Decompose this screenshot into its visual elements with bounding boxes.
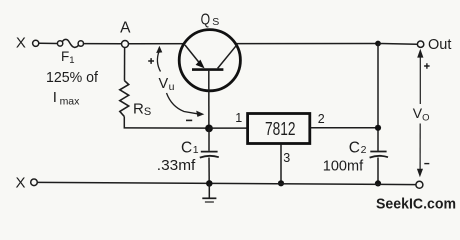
capacitor C2 bottom lead bbox=[377, 158, 379, 184]
wire: regulator pin 2 to C2 node bbox=[311, 127, 379, 129]
terminal X bottom-left open circle bbox=[31, 179, 38, 186]
wire: RS bottom to middle row bbox=[124, 117, 205, 129]
plus sign of Vo bbox=[424, 63, 430, 69]
fuse F1 element squiggle bbox=[62, 39, 78, 47]
svg-text:2: 2 bbox=[318, 112, 325, 126]
wire: top rail from node A to output junction bbox=[129, 43, 378, 45]
terminal X top-left open circle bbox=[33, 40, 39, 46]
junction dot at base / pin1 node bbox=[205, 124, 213, 132]
transistor QS base lead down bbox=[208, 71, 210, 126]
Vu arc lower segment bbox=[167, 93, 198, 114]
transistor QS emitter arrowhead (PNP, into base bar) bbox=[196, 60, 205, 69]
Vu measurement arrow (lower arrowhead, points right at base wire) bbox=[196, 111, 204, 117]
junction dot pin3 / ground rail bbox=[278, 180, 284, 186]
capacitor C1 top plate bbox=[201, 151, 218, 153]
svg-text:7812: 7812 bbox=[265, 119, 296, 139]
node A open circle bbox=[122, 41, 129, 48]
svg-text:3: 3 bbox=[283, 151, 290, 165]
plus sign of Vu bbox=[148, 58, 154, 64]
fuse F1 (left cap circle) bbox=[57, 41, 62, 46]
wire: input terminal to fuse bbox=[40, 42, 58, 44]
Vo arrow bottom arrowhead (points down to bottom terminal) bbox=[417, 169, 423, 177]
junction dot pin2 wire / C2 branch bbox=[375, 125, 381, 131]
capacitor C1 bottom plate (curved) bbox=[200, 156, 219, 158]
transistor QS body circle bbox=[179, 30, 240, 91]
svg-text:.33mf: .33mf bbox=[157, 157, 196, 174]
junction dot top rail / C2 branch bbox=[375, 41, 381, 47]
ground symbol stub bbox=[208, 183, 210, 198]
junction dot C1 / ground rail bbox=[206, 180, 213, 187]
Out terminal open circle bbox=[417, 41, 423, 47]
wire: junction to regulator pin 1 bbox=[209, 127, 248, 129]
wire: top rail junction to Out terminal bbox=[378, 43, 417, 46]
ground symbol bar 2 bbox=[205, 201, 214, 203]
svg-text:A: A bbox=[120, 20, 131, 37]
svg-text:Q: Q bbox=[201, 12, 211, 29]
wire: node A down to resistor RS bbox=[124, 48, 126, 81]
wire: fuse to node A bbox=[84, 43, 122, 45]
capacitor C1 bottom lead bbox=[208, 158, 210, 184]
wire: regulator pin 3 down to ground rail bbox=[280, 145, 282, 184]
svg-text:X: X bbox=[16, 35, 26, 52]
minus sign of Vu bbox=[186, 119, 192, 121]
svg-text:SeekIC.com: SeekIC.com bbox=[376, 195, 456, 212]
junction dot C2 / ground rail bbox=[375, 180, 381, 186]
Vo measurement line lower bbox=[419, 124, 421, 171]
transistor QS emitter line bbox=[185, 45, 202, 66]
svg-text:X: X bbox=[15, 174, 25, 191]
Vo arrow top arrowhead (points up to Out) bbox=[417, 49, 423, 58]
wire: C2 branch vertical upper bbox=[377, 44, 379, 151]
capacitor C1 top lead bbox=[208, 128, 210, 151]
transistor QS collector line bbox=[218, 45, 237, 69]
regulator U1 7812 box bbox=[248, 114, 310, 144]
capacitor C2 bottom plate (curved) bbox=[370, 156, 388, 158]
Vu arc upper segment bbox=[157, 52, 160, 72]
capacitor C2 top plate bbox=[370, 151, 386, 153]
Vo measurement line upper bbox=[419, 56, 421, 104]
bottom-right terminal open circle bbox=[416, 181, 423, 188]
minus sign of Vo bbox=[424, 163, 429, 165]
svg-text:1: 1 bbox=[235, 111, 242, 125]
fuse F1 (right cap circle) bbox=[78, 41, 83, 46]
svg-text:100mf: 100mf bbox=[323, 158, 364, 174]
svg-text:125% of: 125% of bbox=[46, 69, 99, 86]
transistor QS base bar bbox=[192, 68, 223, 71]
ground symbol bar 1 bbox=[202, 197, 216, 199]
svg-text:S: S bbox=[212, 16, 219, 28]
resistor RS zigzag bbox=[120, 81, 129, 117]
wire: bottom ground rail bbox=[38, 182, 416, 184]
svg-text:Out: Out bbox=[428, 37, 451, 53]
Vu measurement arrow (top arrowhead, points up at emitter rail) bbox=[156, 46, 162, 53]
